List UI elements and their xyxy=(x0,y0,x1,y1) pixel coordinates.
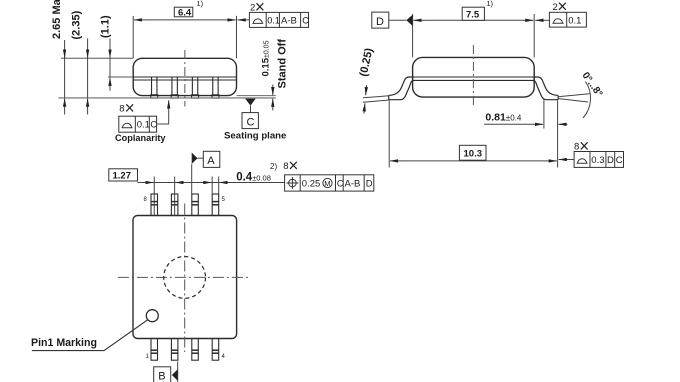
package body front view xyxy=(133,58,236,95)
svg-text:7.5: 7.5 xyxy=(466,9,480,20)
svg-text:C: C xyxy=(150,120,157,130)
svg-text:0.3: 0.3 xyxy=(591,155,604,166)
svg-text:0.81±0.4: 0.81±0.4 xyxy=(485,112,522,124)
body top extension line xyxy=(61,57,133,59)
svg-text:0.1: 0.1 xyxy=(137,120,150,131)
svg-text:2.65 Max.: 2.65 Max. xyxy=(51,0,63,39)
feature control frame position 0.25 M C A-B D xyxy=(285,175,374,191)
pin1 marking leader xyxy=(32,320,148,351)
svg-text:C: C xyxy=(337,179,344,189)
svg-text:1.27: 1.27 xyxy=(113,171,132,182)
dashed circle center xyxy=(164,257,206,299)
left gull-wing lead xyxy=(389,77,414,100)
body bottom extension line xyxy=(237,95,276,97)
lead shoulder band front view xyxy=(134,77,237,80)
svg-text:D: D xyxy=(376,16,384,28)
svg-text:8: 8 xyxy=(283,161,288,172)
svg-text:Seating plane: Seating plane xyxy=(224,131,286,142)
svg-text:A-B: A-B xyxy=(281,15,297,26)
svg-text:C: C xyxy=(247,116,255,128)
datum A xyxy=(191,164,193,194)
leads front view xyxy=(151,77,219,98)
top row pins xyxy=(151,194,219,216)
dimension 7.5 xyxy=(413,14,535,57)
svg-text:C: C xyxy=(302,15,309,25)
dimension 6.4 xyxy=(133,16,236,58)
datum C seating plane xyxy=(245,99,256,106)
seating plane line xyxy=(59,97,276,99)
coplanarity leader arrow xyxy=(157,100,169,124)
svg-text:A: A xyxy=(207,155,215,167)
svg-text:2: 2 xyxy=(553,2,558,13)
svg-text:(2.35): (2.35) xyxy=(71,10,83,39)
angle dimension 0 to 8 degrees xyxy=(558,82,591,119)
svg-text:C: C xyxy=(616,155,623,166)
svg-text:M: M xyxy=(324,179,330,188)
svg-text:1): 1) xyxy=(197,0,204,8)
centerline front view xyxy=(184,50,186,107)
svg-text:A-B: A-B xyxy=(345,179,361,190)
svg-text:Coplanarity: Coplanarity xyxy=(115,133,166,143)
horizontal centerline top view xyxy=(118,276,251,278)
svg-text:10.3: 10.3 xyxy=(464,149,483,160)
svg-text:0.25: 0.25 xyxy=(302,179,321,190)
svg-text:D: D xyxy=(607,155,614,166)
svg-text:Pin1 Marking: Pin1 Marking xyxy=(31,337,97,349)
datum D xyxy=(372,12,389,28)
pin1 marking circle xyxy=(146,310,158,322)
centerline side view xyxy=(472,45,474,107)
dimension 10.3 xyxy=(389,100,557,167)
datum B xyxy=(177,362,179,382)
leader to profile frame 6.4 xyxy=(238,19,250,21)
dimension (1.1) xyxy=(109,39,111,91)
dimension 2.65 Max xyxy=(64,40,66,115)
svg-text:1): 1) xyxy=(486,0,493,8)
stand off dimension 0.15 xyxy=(272,85,274,111)
right gull-wing lead xyxy=(533,77,558,100)
bottom row pins xyxy=(151,339,219,361)
svg-text:8: 8 xyxy=(119,104,124,115)
package body side view xyxy=(413,57,535,97)
svg-text:6.4: 6.4 xyxy=(178,7,192,18)
dimension (2.35) xyxy=(87,39,89,115)
svg-text:B: B xyxy=(158,371,165,382)
svg-text:0.4±0.08: 0.4±0.08 xyxy=(236,172,271,184)
svg-text:Stand Off: Stand Off xyxy=(277,39,289,89)
svg-text:0.1: 0.1 xyxy=(568,15,581,26)
svg-text:2): 2) xyxy=(270,162,277,171)
svg-text:D: D xyxy=(366,179,373,190)
shoulder extension line xyxy=(108,76,133,78)
package body top view xyxy=(133,216,237,339)
dimension 1.27 xyxy=(109,169,138,181)
svg-text:2: 2 xyxy=(250,3,255,14)
dimension (0.25) lead thickness xyxy=(363,85,389,114)
leader to 2x frame xyxy=(535,19,549,21)
svg-text:(1.1): (1.1) xyxy=(100,15,112,38)
dimension 0.81 xyxy=(484,99,568,168)
vertical centerline top view xyxy=(184,204,186,353)
leader to 8x frame xyxy=(559,159,574,161)
lead band side view xyxy=(413,77,534,80)
svg-text:0.1: 0.1 xyxy=(267,15,280,25)
svg-text:8: 8 xyxy=(574,142,579,153)
